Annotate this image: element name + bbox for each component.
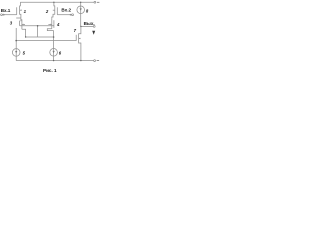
transistor 1 gate bar [16,7,18,14]
transistor 7 gate bar [75,35,77,41]
current source 8 circle [77,6,85,14]
junction dot bottom cs6 [53,60,54,61]
current source 8 top lead [80,2,82,6]
transistor 1 source lead [20,14,21,21]
arrowhead substrate t1 [20,9,22,11]
transistor 2 channel [54,6,56,15]
transistor 7 channel [78,33,80,43]
wire bottom negative rail [16,56,93,61]
junction dot rail cs8 [80,2,81,3]
wire gate tap down [37,26,39,37]
transistor 7 source lead [79,43,81,61]
junction dot stage2 gate [15,40,17,42]
arrowhead substrate t4 [50,24,51,26]
current source 8 arrow [80,6,82,14]
arrowhead substrate t3 [22,24,23,26]
transistor 2 substrate stub [53,9,55,11]
transistor 3 gate bar [19,21,21,26]
current source 5 circle [12,49,20,57]
transistor 3 source lead [22,29,26,37]
arrowhead input 2 [69,14,71,16]
transistor 4 gate bar [53,20,55,28]
svg-text:1: 1 [24,9,27,14]
terminal bottom rail [94,60,96,62]
junction dot bottom t7 [80,60,81,61]
svg-text:Вх.2: Вх.2 [61,7,71,12]
terminal input 1 [1,14,3,16]
wire input 2 lead [57,14,71,16]
transistor 3 drain lead [21,19,22,21]
transistor 4 source lead [47,29,53,31]
transistor 7 drain lead [79,26,81,33]
arrowhead current source 5 [15,51,17,53]
wire second stage gate line [16,40,76,42]
transistor 4 substrate stub [48,23,51,25]
transistor 2 source lead [52,14,55,19]
junction dot rail t2 [53,2,54,3]
arrowhead substrate t7 [79,38,80,40]
svg-text:6: 6 [59,50,62,55]
arrowhead current source 8 [80,8,82,10]
dash top supply [97,1,100,3]
transistor 3 substrate stub [22,23,25,25]
svg-text:Вых.: Вых. [84,21,95,26]
svg-text:2: 2 [45,9,49,14]
svg-text:7: 7 [74,28,77,33]
wire drain3 tap to second stage [16,18,21,41]
transistor 2 drain lead [53,2,56,6]
arrowhead output marker [92,31,95,35]
svg-text:Рис. 1: Рис. 1 [43,68,57,73]
current source 5 top lead [15,41,17,49]
current source 6 circle [50,49,58,57]
svg-text:5: 5 [23,50,26,55]
arrowhead input 1 [3,14,5,16]
svg-text:Вх.1: Вх.1 [1,8,11,13]
transistor 7 substrate stub [79,37,81,39]
current source 6 arrow line [53,49,55,57]
svg-text:3: 3 [10,21,13,26]
current source 5 bottom lead [15,56,17,60]
svg-text:4: 4 [56,22,60,27]
wire tail down to source 6 [53,31,55,49]
arrowhead current source 6 [53,51,55,53]
wire common source line [26,36,54,38]
terminal top rail [94,1,96,3]
current source 8 bottom lead [80,14,82,27]
transistor 1 drain lead [19,2,22,6]
wire output line [81,25,94,27]
terminal output [93,26,95,28]
transistor 3 channel [21,19,23,29]
junction dot source3 [25,36,26,37]
wire input 1 lead [2,14,16,16]
wire top positive rail [20,1,94,3]
wire gate line of 3 and 4 [20,25,54,27]
transistor 4 channel [51,19,53,29]
junction dot output node [80,26,81,27]
junction dot gate line [37,25,39,27]
junction dot source line [53,36,55,38]
transistor 1 channel [19,6,21,15]
terminal input 2 [72,14,74,16]
current source 5 arrow line [15,49,17,57]
transistor 1 substrate stub [20,9,22,11]
transistor 2 gate bar [56,7,58,14]
svg-text:8: 8 [86,8,89,13]
dash bottom supply [97,60,100,62]
